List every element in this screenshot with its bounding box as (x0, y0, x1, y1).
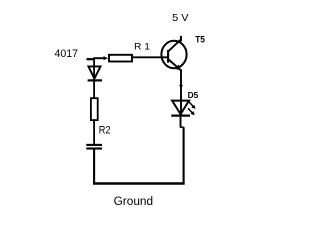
T5 collector stub (180, 36, 182, 42)
resistor R1 (109, 55, 132, 62)
diode (below 4017) (88, 66, 100, 78)
wire jog (181, 126, 184, 128)
T5 emitter arrowhead (175, 65, 181, 71)
wire from 4017 toward R1 (87, 58, 95, 60)
wire capacitor to ground rail (93, 149, 95, 185)
svg-text:D5: D5 (188, 90, 199, 100)
LED D5 (172, 101, 189, 115)
D5 cathode bar (171, 114, 190, 116)
T5 base line (167, 50, 169, 63)
capacitor (86, 144, 102, 146)
D5 light arrow 1 (189, 102, 194, 107)
transistor T5 (161, 41, 186, 68)
T5 collector diagonal (168, 39, 181, 51)
diode cathode bar (88, 79, 102, 81)
wire R1 to transistor base (133, 56, 168, 58)
T5 emitter diagonal (168, 59, 181, 70)
small arrowhead on emitter wire (179, 85, 183, 88)
emitter wire down to LED (180, 70, 182, 117)
wire junction down to diode and on to capacitor (93, 58, 95, 145)
svg-text:T5: T5 (195, 34, 205, 45)
wire down to ground rail (183, 127, 185, 184)
svg-text:4017: 4017 (55, 48, 79, 60)
ground rail wire (93, 182, 185, 185)
svg-text:Ground: Ground (114, 196, 154, 208)
resistor R2 (91, 98, 98, 120)
arrowhead into R1 (104, 56, 109, 60)
svg-text:R2: R2 (99, 124, 111, 136)
wire LED down (180, 116, 182, 128)
svg-text:R 1: R 1 (134, 40, 150, 51)
D5 light arrow 2 (188, 108, 192, 113)
svg-text:5 V: 5 V (172, 13, 189, 24)
